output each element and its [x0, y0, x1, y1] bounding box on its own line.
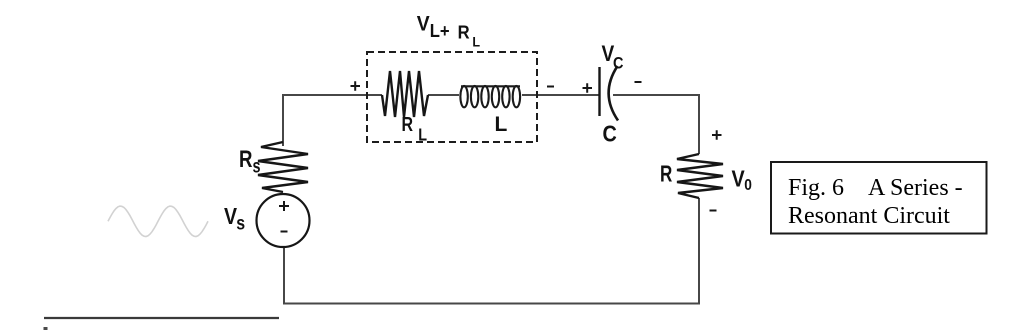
voltage source VS (circle) [257, 194, 310, 247]
polarity + left of capacitor [583, 83, 593, 92]
polarity + left of box [351, 81, 361, 90]
polarity - right of capacitor [635, 81, 642, 83]
svg-text:Rs: Rs [239, 144, 260, 177]
polarity + above resistor R [712, 130, 722, 139]
svg-text:VL+RL: VL+RL [417, 12, 480, 50]
wire: capacitor to right corner down to R [613, 95, 699, 154]
polarity - below resistor R [710, 210, 717, 212]
svg-text:Fig. 6 A Series -: Fig. 6 A Series - [788, 175, 963, 201]
footnote mark [44, 327, 48, 330]
svg-text:Resonant Circuit: Resonant Circuit [788, 203, 950, 229]
svg-text:V0: V0 [732, 166, 752, 194]
inductor L (loops) [460, 86, 520, 107]
svg-text:R: R [660, 162, 673, 187]
svg-text:RL: RL [402, 114, 428, 145]
footnote rule bottom left [44, 317, 279, 319]
figure caption box [771, 162, 987, 234]
polarity - inside source [281, 231, 288, 233]
polarity + inside source [279, 201, 289, 211]
wire: L to capacitor C [522, 94, 599, 96]
wire: between RL and L inside box [428, 94, 459, 96]
svg-text:C: C [603, 120, 618, 147]
svg-text:L: L [495, 113, 508, 136]
capacitor C (straight plate and curved plate) [598, 67, 600, 116]
svg-text:VC: VC [602, 42, 624, 73]
wire: voltage source top to Rs, up and right to dashed box [283, 95, 382, 146]
wire: R down, bottom run, up to voltage source [284, 198, 699, 304]
dashed box around RL and L [367, 52, 537, 142]
sine wave (source waveform decoration) [108, 206, 208, 236]
svg-text:Vs: Vs [224, 203, 245, 234]
resistor RS (zigzag) [258, 142, 308, 192]
resistor R (zigzag) [677, 154, 723, 198]
polarity - right of box [547, 86, 554, 88]
resistor RL (horizontal zigzag) [382, 71, 428, 117]
